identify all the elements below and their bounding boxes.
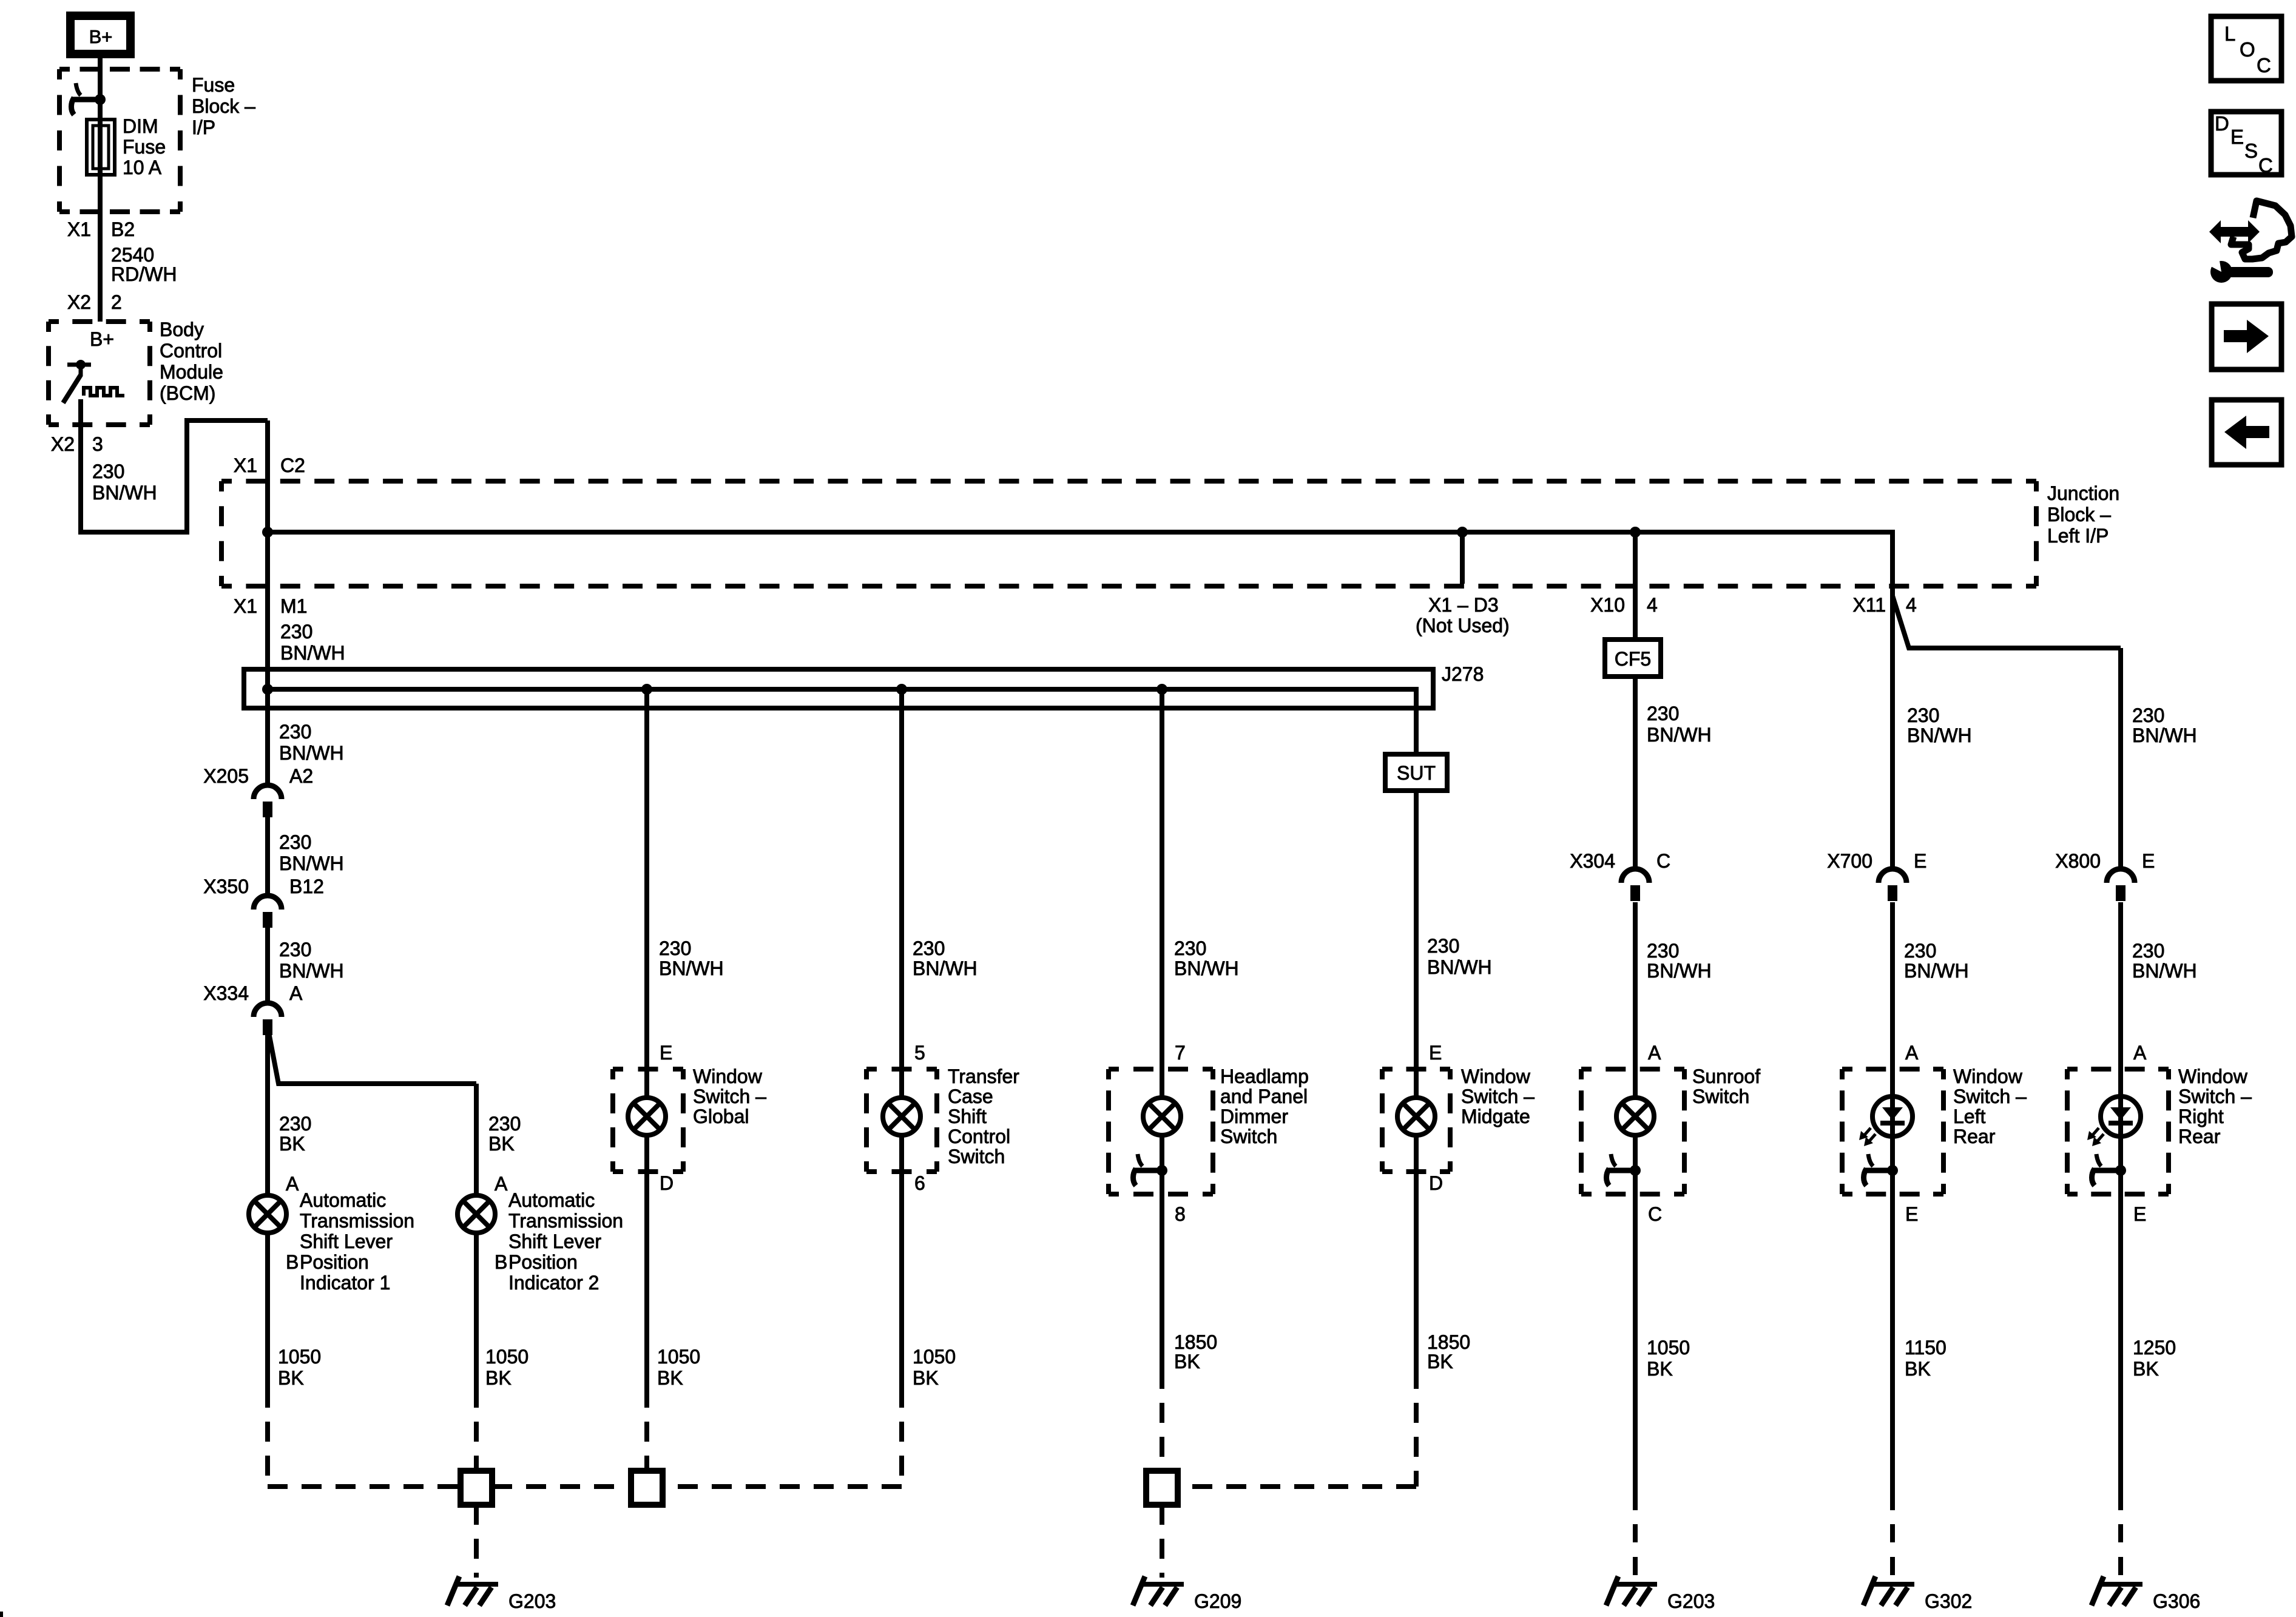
svg-text:Indicator 1: Indicator 1: [300, 1272, 390, 1294]
wire label 230 BN/WH: [1647, 940, 1712, 982]
junction dot J278 col2: [641, 684, 652, 695]
branch wire X11 to right rear column: [1893, 596, 2121, 869]
svg-text:1050: 1050: [657, 1346, 700, 1368]
svg-text:Fuse: Fuse: [123, 136, 166, 158]
svg-text:230: 230: [2132, 704, 2164, 726]
svg-text:BK: BK: [657, 1367, 683, 1389]
wire label 1850 BK col4: [1174, 1331, 1217, 1372]
svg-text:BK: BK: [1905, 1358, 1931, 1380]
ground G203 right: [1606, 1576, 1657, 1605]
pin label A: [2133, 1042, 2147, 1064]
svg-text:Right: Right: [2178, 1106, 2224, 1127]
junction block left I/P dashed outline: [221, 481, 2036, 586]
pin label A: [1648, 1042, 1661, 1064]
svg-text:O: O: [2240, 38, 2255, 61]
svg-text:A: A: [1648, 1042, 1661, 1064]
icon box arrow right: [2212, 304, 2281, 370]
svg-text:230: 230: [2132, 940, 2164, 962]
svg-text:230: 230: [1174, 937, 1206, 959]
svg-text:BK: BK: [1647, 1358, 1673, 1380]
wire indicator 1 down: [265, 1233, 270, 1408]
svg-text:Shift Lever: Shift Lever: [508, 1230, 601, 1252]
svg-text:Global: Global: [693, 1106, 749, 1127]
svg-text:B: B: [286, 1251, 299, 1273]
svg-text:230: 230: [1647, 940, 1679, 962]
svg-text:1150: 1150: [1905, 1337, 1947, 1359]
svg-text:(Not Used): (Not Used): [1416, 615, 1510, 636]
svg-text:X350: X350: [203, 876, 249, 897]
wire label 1250 BK col8: [2133, 1337, 2176, 1380]
svg-text:BK: BK: [488, 1133, 515, 1155]
wire label 230 BN/WH col7: [1907, 704, 1972, 746]
svg-text:BK: BK: [1174, 1351, 1200, 1372]
dashed wire splice to G203: [474, 1505, 479, 1578]
wire label 1850 BK col5: [1427, 1331, 1470, 1372]
svg-text:X334: X334: [203, 982, 249, 1004]
svg-text:Automatic: Automatic: [300, 1189, 386, 1211]
svg-text:E: E: [2230, 126, 2244, 148]
connector X350: [254, 896, 282, 928]
wire window global down: [644, 1137, 649, 1408]
svg-text:G302: G302: [1925, 1590, 1972, 1612]
svg-text:and Panel: and Panel: [1220, 1085, 1308, 1107]
junction dot left rear ground: [1887, 1165, 1898, 1176]
wire X334 to indicator 1: [265, 1033, 270, 1195]
window switch midgate dashed outline: [1382, 1069, 1450, 1172]
svg-text:C: C: [1648, 1203, 1662, 1225]
pin label X2 2: [67, 291, 122, 313]
label Window Switch - Left Rear: [1953, 1065, 2027, 1147]
wire label 230 BN/WH: [92, 461, 157, 504]
junction dot headlamp dimmer ground: [1156, 1165, 1167, 1176]
wire X350 to X334: [265, 928, 270, 1003]
icon box LOC: [2211, 16, 2281, 81]
dashed wire indicator 1 to splice: [268, 1422, 461, 1487]
svg-text:1850: 1850: [1174, 1331, 1217, 1353]
svg-text:X800: X800: [2055, 850, 2101, 872]
wire LED to ground clip right rear: [2118, 1136, 2123, 1170]
svg-text:X1: X1: [234, 454, 257, 476]
junction dot right rear ground: [2115, 1165, 2126, 1176]
svg-text:230: 230: [659, 937, 691, 959]
wire label 230 BN/WH col5: [1427, 935, 1492, 978]
svg-text:BK: BK: [279, 1133, 305, 1155]
svg-text:Window: Window: [1461, 1065, 1531, 1087]
svg-text:BN/WH: BN/WH: [1647, 724, 1712, 746]
svg-text:BN/WH: BN/WH: [2132, 724, 2197, 746]
headlamp and panel dimmer switch dashed outline: [1109, 1069, 1213, 1194]
svg-text:Switch –: Switch –: [1953, 1085, 2027, 1107]
lamp: automatic transmission shift lever position indicator 1: [249, 1195, 286, 1233]
svg-text:A: A: [289, 982, 303, 1004]
svg-text:Switch –: Switch –: [1461, 1085, 1535, 1107]
svg-text:E: E: [2142, 850, 2155, 872]
svg-text:3: 3: [92, 433, 103, 455]
svg-text:230: 230: [280, 621, 312, 643]
wire BCM output to junction block: [81, 399, 268, 535]
connector X304: [1621, 869, 1649, 901]
label Automatic Transmission Shift Lever Position Indicator 1: [300, 1189, 414, 1294]
dashed wire to G306: [2118, 1524, 2123, 1584]
stub wire X1-D3 not used: [1460, 532, 1465, 584]
svg-text:Position: Position: [300, 1251, 369, 1273]
pin label X334 A: [203, 982, 303, 1004]
svg-text:C2: C2: [280, 454, 305, 476]
svg-text:2: 2: [111, 291, 122, 313]
svg-text:Block –: Block –: [2047, 504, 2111, 525]
svg-text:Window: Window: [1953, 1065, 2023, 1087]
svg-text:G203: G203: [1667, 1590, 1715, 1612]
lamp: automatic transmission shift lever position indicator 2: [458, 1195, 495, 1233]
junction dot sunroof ground: [1630, 1165, 1641, 1176]
junction dot at fuse feed: [95, 94, 106, 105]
svg-text:D: D: [660, 1172, 674, 1194]
wire indicator 2 down: [474, 1233, 479, 1408]
pin label 6: [914, 1172, 925, 1194]
label Transfer Case Shift Control Switch: [948, 1065, 1019, 1167]
bus wire inside J278: [268, 689, 1416, 754]
icon box DESC: [2211, 112, 2281, 177]
svg-text:CF5: CF5: [1615, 648, 1651, 670]
junction dot J278 col3: [896, 684, 907, 695]
pin label X205 A2: [203, 765, 313, 787]
svg-text:BN/WH: BN/WH: [279, 960, 344, 982]
svg-text:Fuse: Fuse: [192, 74, 235, 96]
dashed wire between splices: [492, 1484, 631, 1489]
svg-text:BN/WH: BN/WH: [913, 957, 977, 979]
svg-text:C: C: [2257, 54, 2271, 76]
lamp inside window switch global: [628, 1098, 666, 1135]
svg-text:1050: 1050: [913, 1346, 956, 1368]
svg-text:G203: G203: [508, 1590, 556, 1612]
svg-text:1050: 1050: [485, 1346, 528, 1368]
lamp inside sunroof switch: [1616, 1098, 1654, 1135]
label Window Switch - Global: [693, 1065, 766, 1127]
svg-text:4: 4: [1906, 594, 1917, 616]
svg-text:L: L: [2224, 22, 2235, 45]
wire label 230 BN/WH col8: [2132, 704, 2197, 746]
svg-text:Shift: Shift: [948, 1106, 987, 1127]
wire J278 to headlamp dimmer switch: [1160, 689, 1164, 1096]
svg-text:C: C: [2258, 154, 2273, 177]
splice S209: [1146, 1471, 1178, 1505]
svg-text:BN/WH: BN/WH: [92, 482, 157, 504]
pin label B indicator 1: [286, 1251, 299, 1273]
svg-text:1050: 1050: [278, 1346, 321, 1368]
svg-text:Junction: Junction: [2047, 482, 2119, 504]
splice S203b: [631, 1471, 663, 1505]
svg-text:X11: X11: [1852, 594, 1886, 616]
svg-text:Case: Case: [948, 1085, 993, 1107]
connector X800: [2107, 869, 2135, 901]
wire X10 down through CF5: [1633, 532, 1638, 869]
svg-text:X2: X2: [51, 433, 75, 455]
svg-text:Left: Left: [1953, 1106, 1985, 1127]
pin label E: [660, 1042, 672, 1064]
svg-text:230: 230: [92, 461, 124, 482]
svg-text:Rear: Rear: [1953, 1126, 1996, 1147]
svg-text:Transmission: Transmission: [300, 1210, 414, 1232]
wire label 1150 BK col7: [1905, 1337, 1947, 1380]
wire J278 to transfer case switch: [899, 689, 904, 1096]
wire label 1050 BK col1: [278, 1346, 321, 1389]
wire label 230 BK: [279, 1113, 311, 1155]
svg-text:BK: BK: [913, 1367, 939, 1389]
wire label 230 BN/WH: [280, 621, 345, 664]
pin label X700 E: [1827, 850, 1926, 872]
svg-text:B2: B2: [111, 218, 135, 240]
pin label B indicator 2: [495, 1251, 507, 1273]
svg-text:Switch –: Switch –: [2178, 1085, 2252, 1107]
dashed wire window global to splice: [644, 1422, 649, 1471]
connector X205: [254, 785, 282, 817]
connector X700: [1879, 869, 1906, 901]
LED inside window switch right rear: [2087, 1096, 2141, 1146]
svg-text:BN/WH: BN/WH: [659, 957, 724, 979]
label J278: [1442, 663, 1484, 685]
pin label X1 B2: [67, 218, 135, 240]
svg-text:Rear: Rear: [2178, 1126, 2221, 1147]
svg-text:Dimmer: Dimmer: [1220, 1106, 1288, 1127]
svg-text:BK: BK: [485, 1367, 512, 1389]
wire SUT to window switch midgate: [1414, 791, 1419, 1096]
svg-text:X2: X2: [67, 291, 91, 313]
ground G306: [2092, 1576, 2142, 1605]
svg-text:(BCM): (BCM): [160, 382, 215, 404]
junction dot bus left: [262, 527, 273, 538]
power symbol B+: [66, 12, 135, 58]
wire transfer case down: [899, 1137, 904, 1408]
svg-text:230: 230: [279, 939, 311, 960]
svg-text:BK: BK: [2133, 1358, 2159, 1380]
svg-text:4: 4: [1647, 594, 1658, 616]
pin label D: [660, 1172, 674, 1194]
svg-text:I/P: I/P: [192, 116, 215, 138]
wire X700 to window switch left rear: [1890, 902, 1895, 1096]
wire X304 to sunroof switch: [1633, 902, 1638, 1096]
svg-text:230: 230: [1907, 704, 1939, 726]
pin label E: [1905, 1203, 1918, 1225]
svg-text:DIM: DIM: [123, 115, 158, 137]
label G302: [1925, 1590, 1972, 1612]
page corner mark: [0, 1612, 3, 1617]
ground G203: [447, 1576, 498, 1605]
wire label 230 BN/WH: [1904, 940, 1969, 982]
svg-text:A: A: [286, 1173, 299, 1195]
bus wire inside junction block: [268, 530, 1893, 535]
pin label 5: [914, 1042, 925, 1064]
wire label 230 BN/WH col6: [1647, 703, 1712, 746]
wire X800 to window switch right rear: [2118, 902, 2123, 1096]
svg-text:BN/WH: BN/WH: [1647, 960, 1712, 982]
svg-text:D: D: [1429, 1172, 1443, 1194]
dashed wire indicator 2 to splice: [474, 1422, 479, 1471]
svg-text:Control: Control: [948, 1126, 1010, 1147]
pin label C: [1648, 1203, 1662, 1225]
svg-text:Module: Module: [160, 361, 223, 383]
wire label 230 BN/WH col4: [1174, 937, 1239, 979]
label Sunroof Switch: [1692, 1065, 1760, 1107]
svg-text:B12: B12: [289, 876, 324, 897]
pin label A indicator 1: [286, 1173, 299, 1195]
wire right rear down: [2118, 1170, 2123, 1510]
svg-text:E: E: [1914, 850, 1926, 872]
internal ground clip sunroof switch: [1607, 1154, 1636, 1186]
wire sunroof down: [1633, 1137, 1638, 1510]
svg-text:D: D: [2215, 112, 2229, 135]
svg-text:S: S: [2244, 140, 2258, 162]
label Body Control Module (BCM): [160, 319, 223, 404]
pin label 8: [1175, 1203, 1186, 1225]
label Window Switch - Right Rear: [2178, 1065, 2252, 1147]
svg-text:Sunroof: Sunroof: [1692, 1065, 1760, 1087]
svg-text:BN/WH: BN/WH: [1907, 724, 1972, 746]
wire label 230 BN/WH col2: [659, 937, 724, 979]
svg-text:7: 7: [1175, 1042, 1186, 1064]
pin label X1-D3 (Not Used): [1416, 594, 1510, 636]
svg-text:RD/WH: RD/WH: [111, 263, 177, 285]
dashed wire transfer case to splice: [663, 1422, 902, 1487]
sunroof switch dashed outline: [1581, 1069, 1684, 1194]
svg-text:Window: Window: [693, 1065, 763, 1087]
junction dot at X10: [1630, 527, 1641, 538]
wire label 1050 BK col3: [913, 1346, 956, 1389]
window switch right rear dashed outline: [2067, 1069, 2169, 1194]
svg-text:A: A: [2133, 1042, 2147, 1064]
icon adjust/repair (hand with wrench): [2205, 201, 2292, 283]
body control module BCM dashed outline: [49, 322, 150, 425]
svg-text:X1: X1: [234, 595, 257, 617]
pin label X304 C: [1570, 850, 1670, 872]
label G203: [1667, 1590, 1715, 1612]
pin label X800 E: [2055, 850, 2155, 872]
wire headlamp dimmer down: [1160, 1137, 1164, 1389]
svg-text:X1: X1: [67, 218, 91, 240]
icon box arrow left: [2212, 400, 2281, 465]
wire X11 down (bus corner): [1890, 530, 1895, 869]
junction dot J278 col1: [262, 684, 273, 695]
fuse block I/P dashed outline: [59, 69, 180, 212]
svg-text:8: 8: [1175, 1203, 1186, 1225]
svg-text:X700: X700: [1827, 850, 1872, 872]
internal ground clip left rear: [1864, 1154, 1893, 1186]
svg-text:1050: 1050: [1647, 1337, 1690, 1359]
splice pack J278 box: [244, 669, 1433, 708]
pin label X10 4: [1590, 594, 1658, 616]
wire label 230 BN/WH col1: [279, 721, 344, 764]
svg-text:230: 230: [488, 1113, 521, 1135]
svg-text:230: 230: [1647, 703, 1679, 724]
svg-text:BN/WH: BN/WH: [280, 642, 345, 664]
svg-text:1250: 1250: [2133, 1337, 2176, 1359]
svg-text:A: A: [1905, 1042, 1919, 1064]
svg-text:BK: BK: [278, 1367, 304, 1389]
svg-text:M1: M1: [280, 595, 307, 617]
svg-text:BK: BK: [1427, 1351, 1453, 1372]
wire label 230 BN/WH col3: [913, 937, 977, 979]
svg-text:230: 230: [1904, 940, 1936, 962]
pin label A: [1905, 1042, 1919, 1064]
wire B+ to fuse block: [98, 58, 103, 100]
svg-text:BN/WH: BN/WH: [1904, 960, 1969, 982]
window switch global dashed outline: [613, 1069, 683, 1172]
svg-text:SUT: SUT: [1397, 762, 1436, 784]
wire label 1050 BK col1b: [485, 1346, 528, 1389]
svg-text:B: B: [495, 1251, 507, 1273]
svg-text:1850: 1850: [1427, 1331, 1470, 1353]
wire midgate down: [1414, 1137, 1419, 1389]
label G209: [1194, 1590, 1241, 1612]
svg-text:Shift Lever: Shift Lever: [300, 1230, 393, 1252]
internal ground clip right rear: [2092, 1154, 2121, 1186]
lamp inside headlamp dimmer switch: [1143, 1098, 1181, 1135]
svg-text:Indicator 2: Indicator 2: [508, 1272, 599, 1294]
svg-text:Position: Position: [508, 1251, 578, 1273]
label G203: [508, 1590, 556, 1612]
dashed wire midgate to splice: [1178, 1403, 1416, 1487]
label G306: [2153, 1590, 2200, 1612]
lamp inside window switch midgate: [1397, 1098, 1435, 1135]
svg-text:BN/WH: BN/WH: [279, 742, 344, 764]
svg-text:Transfer: Transfer: [948, 1065, 1019, 1087]
LED inside window switch left rear: [1859, 1096, 1913, 1146]
clip terminal inside fuse block: [72, 83, 101, 115]
svg-text:BN/WH: BN/WH: [1174, 957, 1239, 979]
svg-text:Switch –: Switch –: [693, 1085, 766, 1107]
svg-text:Switch: Switch: [1220, 1126, 1277, 1147]
svg-text:230: 230: [279, 831, 311, 853]
wire LED to ground clip: [1890, 1136, 1895, 1170]
svg-text:E: E: [2133, 1203, 2146, 1225]
label Automatic Transmission Shift Lever Position Indicator 2: [508, 1189, 623, 1294]
label Window Switch - Midgate: [1461, 1065, 1535, 1127]
pin label X1 C2: [234, 454, 305, 476]
pin label X1 M1: [234, 595, 308, 617]
svg-text:BN/WH: BN/WH: [279, 852, 344, 874]
pin label X2 3: [51, 433, 103, 455]
svg-text:Headlamp: Headlamp: [1220, 1065, 1309, 1087]
svg-text:A2: A2: [289, 765, 313, 787]
svg-text:Switch: Switch: [948, 1146, 1005, 1167]
window switch left rear dashed outline: [1842, 1069, 1943, 1194]
svg-text:X1 – D3: X1 – D3: [1428, 594, 1499, 616]
fuse CF5 box: [1605, 640, 1661, 677]
svg-text:E: E: [1429, 1042, 1442, 1064]
svg-text:230: 230: [913, 937, 945, 959]
internal ground clip headlamp dimmer: [1133, 1154, 1163, 1186]
ground G209: [1133, 1576, 1184, 1605]
pin label A indicator 2: [495, 1173, 508, 1195]
svg-text:X304: X304: [1570, 850, 1615, 872]
svg-text:G209: G209: [1194, 1590, 1241, 1612]
svg-text:6: 6: [914, 1172, 925, 1194]
junction dot at X1-D3: [1457, 527, 1468, 538]
wire label 230 BN/WH: [279, 831, 344, 874]
label Headlamp and Panel Dimmer Switch: [1220, 1065, 1309, 1147]
svg-text:E: E: [660, 1042, 672, 1064]
wire label 230 BN/WH: [2132, 940, 2197, 982]
svg-text:2540: 2540: [111, 244, 154, 266]
pin label D: [1429, 1172, 1443, 1194]
dashed wire headlamp dimmer to splice: [1160, 1403, 1164, 1471]
svg-text:E: E: [1905, 1203, 1918, 1225]
svg-text:Window: Window: [2178, 1065, 2248, 1087]
svg-text:Automatic: Automatic: [508, 1189, 595, 1211]
svg-text:Transmission: Transmission: [508, 1210, 623, 1232]
svg-text:10 A: 10 A: [123, 157, 162, 178]
svg-text:BN/WH: BN/WH: [1427, 956, 1492, 978]
lamp inside transfer case switch: [883, 1098, 920, 1135]
